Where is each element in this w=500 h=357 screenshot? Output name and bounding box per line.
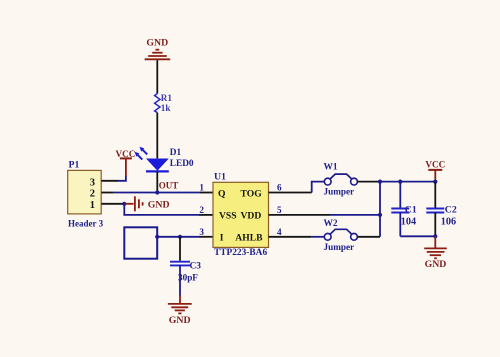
node pad junction	[155, 235, 159, 239]
wire U1 pin4 to W2	[269, 236, 312, 238]
resistor R1	[155, 94, 160, 113]
svg-text:W2: W2	[324, 219, 338, 229]
svg-text:3: 3	[90, 178, 95, 189]
wire pad to U1 pin3	[157, 236, 199, 238]
svg-text:I: I	[220, 233, 224, 244]
power VCC (left)	[115, 149, 135, 176]
ground GND (right)	[434, 236, 436, 247]
jumper W1	[324, 174, 357, 185]
svg-text:Q: Q	[218, 189, 226, 200]
svg-text:1k: 1k	[161, 103, 172, 113]
svg-text:5: 5	[277, 205, 282, 215]
power VCC (right)	[425, 159, 445, 179]
svg-text:P1: P1	[69, 160, 80, 171]
svg-text:TTP223-BA6: TTP223-BA6	[214, 248, 267, 258]
node VCC junction	[433, 180, 437, 184]
node OUT junction	[155, 190, 159, 194]
svg-text:TOG: TOG	[241, 189, 263, 200]
wire GND to R1	[156, 60, 158, 93]
connector P1	[68, 170, 102, 214]
wire W1 to rail	[357, 181, 380, 183]
svg-text:VCC: VCC	[425, 159, 445, 169]
svg-text:U1: U1	[214, 172, 226, 183]
node pin1 junction	[122, 202, 126, 206]
svg-text:2: 2	[199, 205, 204, 215]
node VDD junction	[378, 213, 382, 217]
node C1 top junction	[398, 180, 402, 184]
svg-text:GND: GND	[146, 37, 168, 48]
svg-text:C1: C1	[405, 204, 417, 215]
capacitor C1	[399, 182, 401, 208]
svg-text:Header 3: Header 3	[68, 218, 104, 228]
jumper W2	[324, 229, 357, 240]
wire R1 to D1	[156, 113, 158, 159]
svg-text:LED0: LED0	[170, 159, 194, 169]
svg-text:VSS: VSS	[219, 211, 237, 222]
node C3 tap junction	[178, 235, 182, 239]
svg-text:W1: W1	[324, 163, 338, 173]
wire P1 pin1	[101, 203, 124, 205]
wire C3 to ground	[179, 265, 181, 295]
svg-text:6: 6	[277, 183, 282, 193]
svg-text:Jumper: Jumper	[324, 187, 355, 197]
wire top rail	[380, 181, 435, 183]
svg-text:R1: R1	[161, 93, 173, 103]
wire U1 pin5 (VDD)	[269, 214, 331, 216]
svg-text:OUT: OUT	[159, 181, 179, 191]
ground GND (bottom, at C3)	[168, 304, 192, 314]
svg-text:GND: GND	[148, 199, 170, 210]
node bottom rail junction	[433, 234, 437, 238]
op-amp U1 (TTP223-BA6)	[213, 182, 269, 247]
wire P1 pin1 to U1 VSS	[124, 204, 199, 215]
svg-text:VCC: VCC	[115, 149, 135, 159]
svg-text:Jumper: Jumper	[324, 242, 355, 252]
svg-text:AHLB: AHLB	[235, 233, 263, 244]
svg-text:GND: GND	[425, 259, 447, 270]
wire U1 pin6 to W1	[269, 192, 312, 194]
touch pad	[124, 227, 157, 258]
svg-text:2: 2	[90, 188, 95, 199]
svg-text:GND: GND	[169, 315, 191, 326]
capacitor C3	[170, 262, 190, 266]
wire P1 pin2 (OUT net)	[101, 192, 113, 194]
ground GND (rotated, at P1 pin1)	[124, 196, 142, 211]
wire P1 pin3	[101, 180, 118, 182]
svg-text:D1: D1	[170, 148, 182, 158]
svg-text:C2: C2	[445, 204, 457, 215]
LED D1	[135, 147, 169, 172]
wire rail drop to VDD	[379, 182, 381, 215]
capacitor C2	[434, 182, 436, 208]
wire VCC stem to P1 pin3	[118, 176, 126, 181]
svg-text:106: 106	[441, 217, 456, 228]
svg-text:4: 4	[277, 227, 282, 237]
ground GND (top, inverted stack)	[145, 50, 171, 60]
wire W2 to VDD node	[357, 236, 380, 238]
svg-text:1: 1	[90, 200, 95, 211]
svg-text:30pF: 30pF	[178, 273, 198, 283]
svg-text:104: 104	[401, 217, 416, 228]
wire tap to C3	[179, 237, 181, 261]
wire bottom rail	[400, 235, 435, 237]
svg-text:VDD: VDD	[241, 211, 262, 222]
svg-text:C3: C3	[190, 261, 202, 271]
svg-text:3: 3	[199, 227, 204, 237]
svg-text:1: 1	[199, 183, 204, 193]
wire D1 to OUT node	[156, 171, 158, 192]
node rail/W1 junction	[378, 180, 382, 184]
